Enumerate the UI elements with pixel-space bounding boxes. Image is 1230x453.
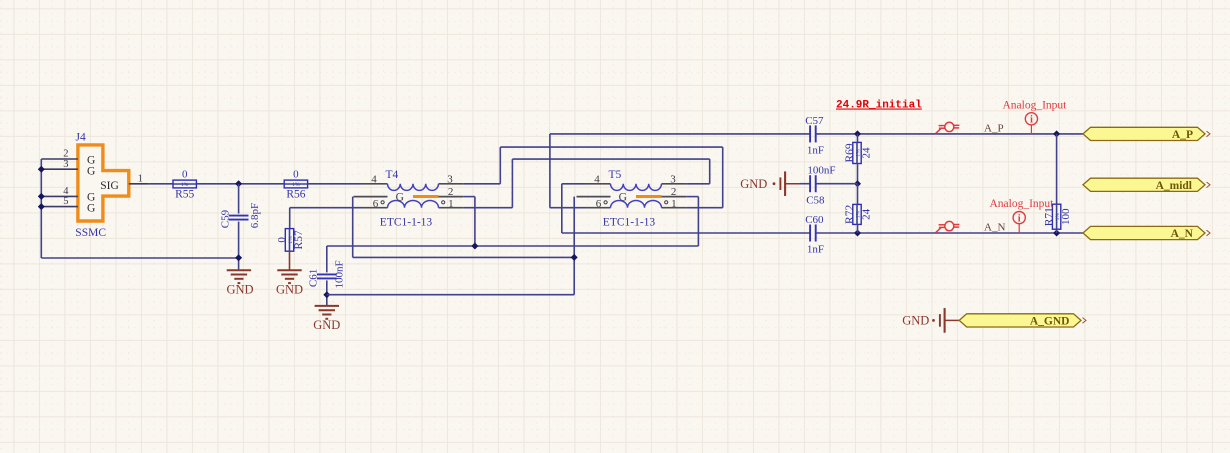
wire: T4 pin 6 to R57 [290,208,363,229]
wire: T5 pin 6 to A_P line [550,134,586,208]
svg-text:SIG: SIG [100,180,119,192]
svg-text:C60: C60 [805,214,824,226]
svg-text:R55: R55 [175,189,194,201]
wire: A_P line left of C57 [550,133,810,135]
port A_P [1083,127,1205,140]
svg-text:G: G [619,191,627,203]
resistor R57 (0 ohm) [276,229,305,252]
svg-text:2: 2 [448,186,454,198]
wire: C58 to mid node [816,183,858,185]
diff pair marker on A_N [936,221,960,232]
svg-text:R69: R69 [844,143,856,162]
resistor R71 vertical with stubs [1056,134,1058,204]
svg-text:GND: GND [313,318,340,332]
svg-text:1: 1 [138,173,143,184]
svg-text:Analog_Input: Analog_Input [1003,99,1068,111]
svg-text:100nF: 100nF [334,260,346,288]
svg-text:24: 24 [860,147,872,159]
wire: mid node to R72 [857,184,859,205]
svg-text:C57: C57 [805,115,824,127]
capacitor C57 (1nF) [805,115,824,157]
svg-text:100: 100 [1060,208,1072,225]
svg-text:2: 2 [671,186,677,198]
svg-text:1%: 1% [181,182,189,188]
resistor R55 (0 ohm) [173,168,196,200]
svg-text:GND: GND [902,314,929,328]
wire: GND to C58 [785,183,810,185]
svg-text:ETC1-1-13: ETC1-1-13 [603,217,656,229]
resistor R71 (100 ohm) [1044,204,1072,229]
wire: J4 pin1 to R55 [149,183,173,185]
pin 2 of J4 [41,149,78,160]
power port GND (A_GND, bar style) [902,308,944,333]
junction at C61 bottom [323,291,330,298]
wire: R56 to T4 pin 4 [307,183,362,185]
transformer T5 ETC1-1-13 [577,169,687,229]
svg-text:A_N: A_N [1171,228,1194,240]
probe Analog_Input (A_P) [1003,99,1068,134]
junction T4.2 on C61 bus [471,243,478,250]
svg-text:G: G [396,191,404,203]
svg-text:R72: R72 [844,205,856,224]
svg-text:GND: GND [740,177,767,191]
port A_N [1083,226,1205,239]
svg-text:A_P: A_P [1172,129,1193,141]
pin 3 of J4 [41,159,78,170]
wire: C59 to GND [238,222,240,271]
svg-text:i: i [1030,115,1033,126]
wire: A_P line right of C57 to port [816,133,1083,135]
power port GND (mid, bar style) [740,171,785,196]
wire: R69 top stub [857,134,859,143]
capacitor C58 (100nF) [806,164,835,206]
svg-text:G: G [87,202,95,214]
junction R71 top [1053,130,1060,137]
wire: J4 ground pins bus (left vertical + bottom run to GND) [41,159,238,258]
svg-text:C61: C61 [308,269,320,287]
port A_GND [959,314,1081,327]
svg-text:C58: C58 [806,194,825,206]
wire: C61 bus (T4.2/T5.2 to C61) [327,246,699,272]
wire: T5 pin 2 drop [686,197,698,246]
svg-text:1nF: 1nF [807,244,824,256]
wire: R55 to R56 [196,183,284,185]
ground under C61 [313,306,340,332]
wire: R57 to GND [289,251,291,270]
junction G bus [571,254,578,261]
svg-text:T5: T5 [609,169,622,181]
svg-text:Analog_Input: Analog_Input [990,198,1055,210]
ground under R57 [276,270,303,296]
svg-text:i: i [1018,213,1021,224]
svg-text:1%: 1% [292,182,300,188]
junction at C59/GND bus [235,254,242,261]
pin 4 of J4 [41,186,78,197]
wire: node to C59 [238,184,240,214]
svg-text:ETC1-1-13: ETC1-1-13 [380,217,433,229]
svg-text:24.9R_initial: 24.9R_initial [836,100,922,112]
svg-text:A_P: A_P [984,123,1004,135]
resistor R69 (24 ohm) [844,142,872,163]
svg-text:6.8pF: 6.8pF [249,203,261,228]
svg-text:SSMC: SSMC [75,227,106,239]
wire: T4 pin 3 to T5 pin 1 [463,147,723,208]
capacitor C60 (1nF) [805,214,824,256]
junction R72 bottom [854,230,861,237]
svg-text:3: 3 [670,173,676,185]
svg-text:6: 6 [373,198,379,210]
wire: T4 pin 1 to T5 pin 3 [463,159,710,208]
junction node C59 tap [235,180,242,187]
svg-text:0: 0 [182,168,188,180]
ground under C59 [226,270,253,296]
svg-text:1nF: 1nF [807,145,824,157]
wire: A_N line right of C60 to port [816,232,1083,234]
svg-text:GND: GND [276,282,303,296]
svg-text:3: 3 [63,159,68,170]
wire: T4 G pin down and across [353,197,575,258]
svg-text:0: 0 [293,168,299,180]
svg-text:A_midl: A_midl [1156,180,1192,192]
wire: GND to A_GND port [945,319,960,321]
svg-text:A_N: A_N [984,222,1005,234]
svg-text:24: 24 [860,208,872,220]
capacitor C61 (100nF) [308,260,346,288]
wire: A_N line left of C60 [562,232,810,234]
pin 1 of J4 [129,173,149,184]
resistor R56 (0 ohm) [284,168,307,200]
svg-text:A_GND: A_GND [1030,316,1070,328]
pin 5 of J4 [41,196,78,207]
resistor R72 (24 ohm) [844,204,872,224]
probe Analog_Input (A_N) [990,198,1055,233]
capacitor C59 (6.8pF) [220,203,262,228]
connector J4 SSMC [75,132,129,240]
wire: C61 to GND [326,280,328,306]
wire: T5 G pin down to ground bus [327,197,574,295]
wire: T5 pin 4 to A_N line [562,184,586,233]
svg-text:0: 0 [276,237,288,243]
wire: R69 to mid node [857,164,859,184]
junction at J4 pin 4 [38,193,45,200]
svg-text:C59: C59 [220,209,232,228]
svg-text:R57: R57 [293,230,305,249]
svg-text:1: 1 [671,198,677,210]
svg-text:5: 5 [63,196,68,207]
svg-text:4: 4 [371,173,377,185]
port A_midl [1083,178,1205,191]
svg-text:1: 1 [448,198,454,210]
wire: R72 bottom stub [857,224,859,233]
svg-text:G: G [87,154,95,166]
svg-text:3: 3 [447,173,453,185]
svg-text:100nF: 100nF [807,164,835,176]
junction at J4 pin 5 [38,203,45,210]
svg-text:R56: R56 [286,189,305,201]
junction mid node [854,180,861,187]
svg-text:J4: J4 [76,132,86,144]
svg-text:GND: GND [226,282,253,296]
junction R69 top [854,130,861,137]
transformer T4 ETC1-1-13 [354,169,464,229]
junction R71 bottom [1053,230,1060,237]
svg-text:4: 4 [594,173,600,185]
junction at J4 pin 3 [38,166,45,173]
svg-text:T4: T4 [386,169,399,181]
svg-text:G: G [87,166,95,178]
diff pair marker on A_P [936,122,960,133]
svg-text:6: 6 [596,198,602,210]
wire: T4 pin 2 drop [463,197,475,246]
